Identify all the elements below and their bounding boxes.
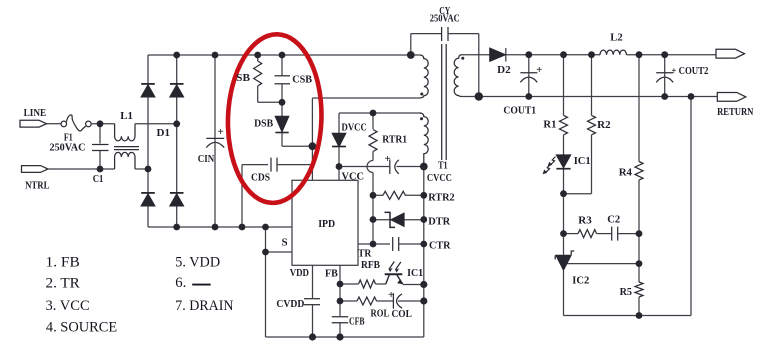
svg-text:S: S xyxy=(282,237,288,249)
svg-text:RTR1: RTR1 xyxy=(382,134,407,146)
svg-text:4. SOURCE: 4. SOURCE xyxy=(46,320,117,336)
svg-text:COUT1: COUT1 xyxy=(503,105,536,117)
svg-text:IPD: IPD xyxy=(318,218,335,230)
svg-text:CVDD: CVDD xyxy=(276,298,304,310)
svg-text:IC1: IC1 xyxy=(407,267,423,279)
svg-text:250VAC: 250VAC xyxy=(430,13,460,25)
svg-text:+: + xyxy=(388,289,394,301)
svg-text:+: + xyxy=(385,153,391,165)
svg-text:R3: R3 xyxy=(578,215,592,227)
svg-text:C1: C1 xyxy=(93,173,104,185)
svg-text:DTR: DTR xyxy=(428,215,451,227)
svg-text:R1: R1 xyxy=(543,119,556,131)
svg-text:R5: R5 xyxy=(620,286,633,298)
svg-text:ROL: ROL xyxy=(371,307,390,319)
svg-text:NTRL: NTRL xyxy=(25,180,49,192)
svg-text:FB: FB xyxy=(325,267,338,279)
svg-text:1. FB: 1. FB xyxy=(46,255,80,271)
svg-text:CSB: CSB xyxy=(292,74,312,86)
svg-text:R4: R4 xyxy=(619,166,633,178)
svg-text:2. TR: 2. TR xyxy=(46,276,80,292)
svg-text:IC1: IC1 xyxy=(574,155,591,167)
svg-text:CTR: CTR xyxy=(429,239,451,251)
svg-text:5. VDD: 5. VDD xyxy=(175,254,220,270)
svg-text:IC2: IC2 xyxy=(572,274,589,286)
svg-text:CDS: CDS xyxy=(251,172,270,184)
svg-text:R2: R2 xyxy=(597,119,611,131)
svg-text:3. VCC: 3. VCC xyxy=(46,298,90,314)
svg-text:DSB: DSB xyxy=(254,118,274,130)
svg-text:CVCC: CVCC xyxy=(427,172,452,184)
svg-text:T1: T1 xyxy=(438,159,448,171)
svg-text:SB: SB xyxy=(236,72,250,84)
svg-text:CIN: CIN xyxy=(198,153,214,165)
svg-text:COL: COL xyxy=(392,308,412,320)
svg-text:D2: D2 xyxy=(497,64,511,76)
svg-text:6.: 6. xyxy=(175,275,186,291)
svg-text:C2: C2 xyxy=(607,214,620,226)
svg-text:DVCC: DVCC xyxy=(342,122,367,134)
svg-text:VCC: VCC xyxy=(342,171,365,183)
svg-text:VDD: VDD xyxy=(290,267,309,279)
svg-text:RETURN: RETURN xyxy=(717,106,753,118)
svg-text:TR: TR xyxy=(358,247,372,259)
svg-text:LINE: LINE xyxy=(24,107,47,119)
svg-text:+: + xyxy=(218,126,224,138)
svg-text:D1: D1 xyxy=(157,127,171,139)
svg-text:L2: L2 xyxy=(610,32,623,44)
svg-text:+ COUT2: + COUT2 xyxy=(671,65,708,77)
svg-text:+: + xyxy=(536,64,542,76)
svg-text:L1: L1 xyxy=(120,110,133,122)
svg-text:250VAC: 250VAC xyxy=(50,141,86,153)
svg-text:CFB: CFB xyxy=(349,316,365,328)
svg-text:7. DRAIN: 7. DRAIN xyxy=(175,298,233,314)
svg-text:RFB: RFB xyxy=(361,259,381,271)
svg-text:RTR2: RTR2 xyxy=(428,192,455,204)
